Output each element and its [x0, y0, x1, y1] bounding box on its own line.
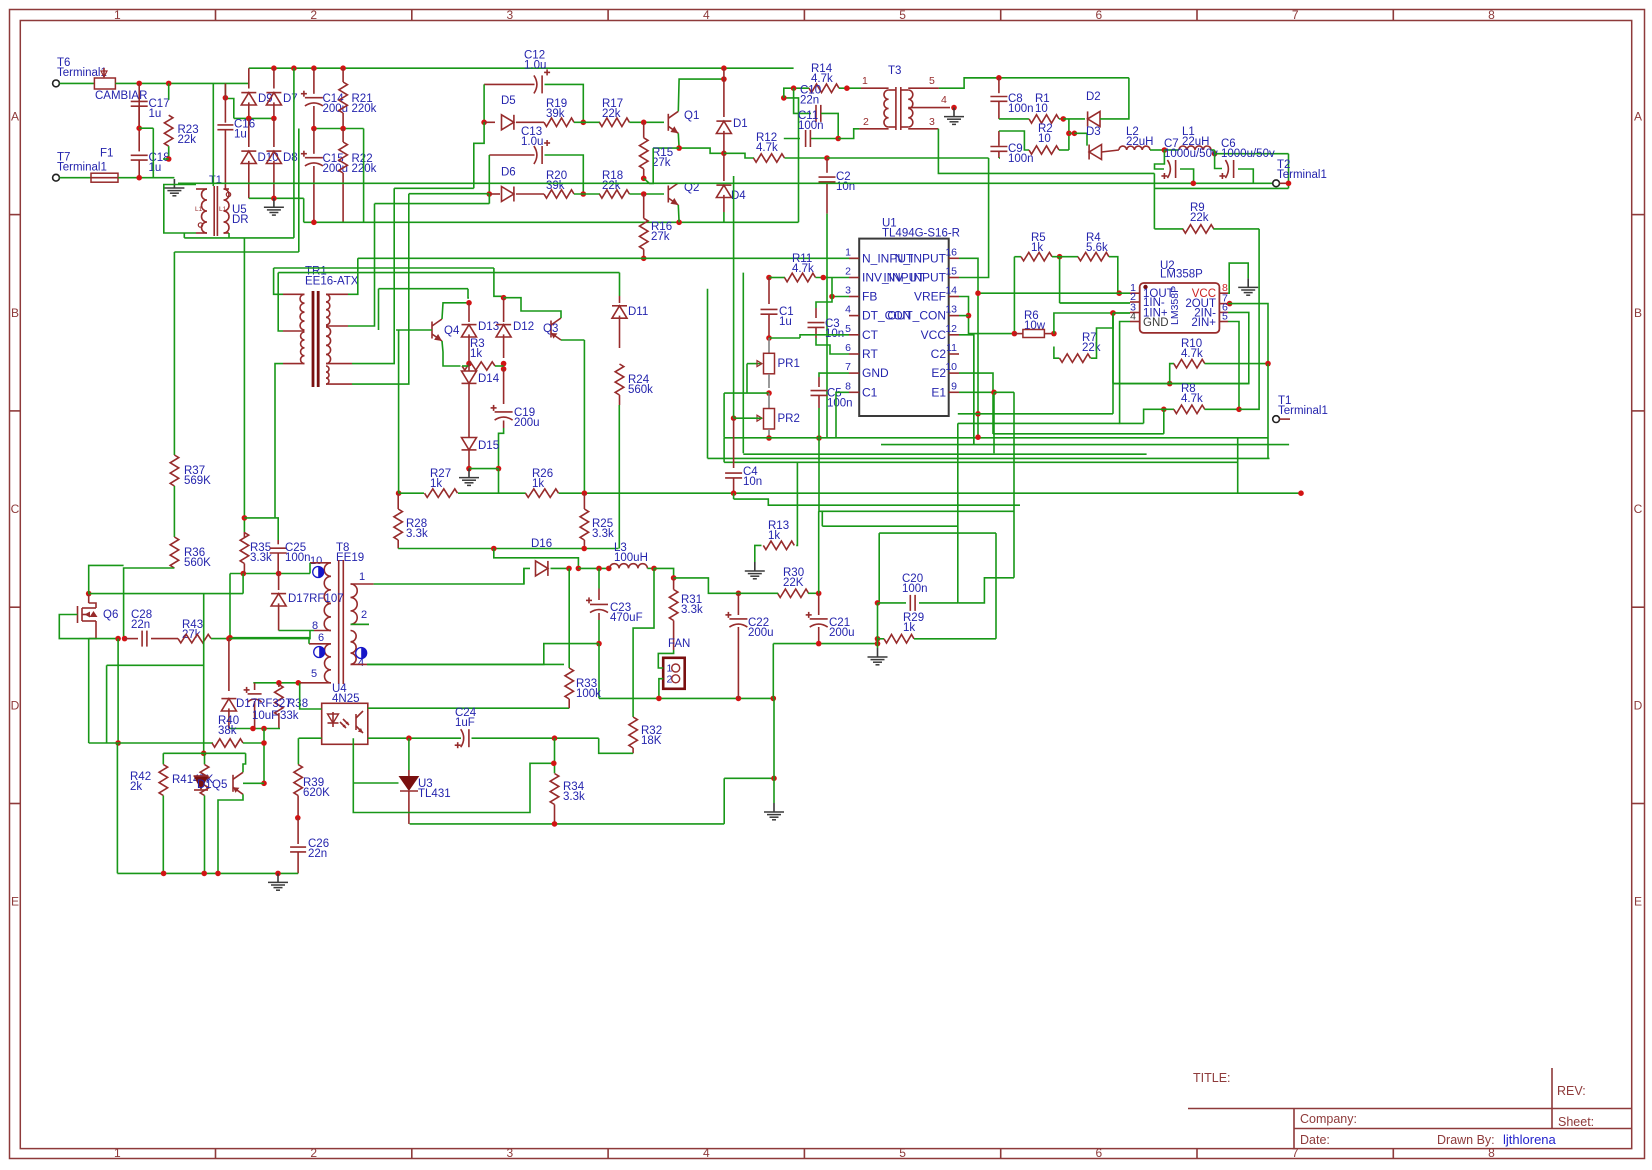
wire top rail [249, 67, 794, 69]
wire [839, 87, 861, 89]
ground [468, 469, 470, 478]
svg-text:T1: T1 [209, 174, 222, 186]
svg-text:10: 10 [945, 361, 957, 373]
svg-text:R41: R41 [172, 774, 193, 786]
svg-text:3: 3 [507, 1146, 514, 1160]
svg-text:PR1: PR1 [778, 358, 800, 370]
wire U1 pin13 [959, 315, 969, 317]
svg-text:2: 2 [310, 8, 317, 22]
resistor R22 [342, 129, 344, 143]
wire [818, 511, 820, 593]
svg-text:Q4: Q4 [444, 325, 460, 337]
wire U1 pin10 E2 [959, 373, 993, 434]
svg-text:200u: 200u [514, 417, 540, 429]
wire [674, 578, 733, 593]
svg-text:RT: RT [862, 347, 878, 361]
svg-text:470uF: 470uF [610, 612, 643, 624]
resistor R28 [394, 509, 403, 540]
wire Q1 emitter node [678, 133, 724, 153]
svg-text:Date:: Date: [1300, 1133, 1330, 1147]
wire [877, 603, 879, 648]
svg-text:560k: 560k [628, 384, 653, 396]
svg-text:C1: C1 [862, 385, 878, 399]
svg-text:5: 5 [899, 1146, 906, 1160]
wire Q4 collector [442, 303, 469, 319]
svg-text:22k: 22k [1190, 212, 1209, 224]
wire T3 pin3 [938, 129, 1154, 174]
wire [89, 565, 124, 593]
wire [295, 815, 301, 821]
wire U1 pin12 VCC [959, 335, 974, 445]
wire [60, 82, 95, 84]
svg-text:Drawn By:: Drawn By: [1437, 1133, 1495, 1147]
terminal T7 [53, 174, 60, 181]
wire [641, 255, 647, 261]
svg-text:Q3: Q3 [543, 323, 558, 335]
wire rail 698 [599, 697, 773, 699]
svg-text:INV_INPUT: INV_INPUT [883, 271, 946, 285]
diode D11 [619, 296, 621, 303]
transistor Q1 [667, 114, 669, 131]
wire [115, 82, 248, 84]
wire [211, 638, 229, 640]
svg-text:4: 4 [941, 94, 947, 106]
wire Q6 source [88, 639, 90, 743]
wire TR1 right tap4 [352, 194, 409, 384]
switch CAMBIAR [94, 78, 115, 89]
wire U1 pin8 [836, 392, 849, 438]
wire rail 573 [230, 573, 310, 575]
svg-text:8: 8 [1488, 1146, 1495, 1160]
svg-text:Sheet:: Sheet: [1558, 1115, 1594, 1129]
svg-text:620K: 620K [303, 787, 330, 799]
resistor R37 [173, 252, 175, 455]
wire [766, 390, 772, 396]
svg-text:1u: 1u [779, 316, 792, 328]
svg-text:D15: D15 [478, 440, 499, 452]
wire Q6 gate [59, 615, 118, 639]
svg-text:N_INPUT: N_INPUT [895, 251, 947, 265]
svg-text:10n: 10n [743, 476, 762, 488]
wire [243, 742, 264, 744]
wire rail 288.7 [379, 288, 469, 290]
wire T8 pin1 [374, 568, 524, 584]
wire [1267, 364, 1269, 459]
svg-text:E: E [1634, 895, 1642, 909]
resistor R19 [516, 121, 544, 123]
resistor R27 [399, 492, 424, 494]
svg-text:T3: T3 [888, 65, 901, 77]
wire Q3 vert [583, 340, 585, 493]
capacitor C16 [224, 83, 226, 122]
wire [363, 129, 365, 223]
wire rail 458 [708, 457, 1270, 459]
wire [466, 361, 472, 367]
potentiometer PR1 [768, 338, 770, 353]
wire [314, 128, 364, 130]
terminal T6 [53, 80, 60, 87]
diode D9 [248, 68, 250, 88]
wire [124, 568, 175, 639]
wire rail 413 [958, 413, 1113, 415]
svg-text:5: 5 [899, 8, 906, 22]
svg-text:D: D [1634, 698, 1643, 712]
wire [1069, 132, 1075, 134]
diode D2 [1088, 111, 1100, 126]
svg-text:Q1: Q1 [684, 110, 699, 122]
svg-text:1uF: 1uF [455, 717, 475, 729]
diode D1 [723, 68, 725, 79]
svg-text:DR: DR [232, 214, 249, 226]
svg-text:22k: 22k [602, 180, 621, 192]
svg-text:5: 5 [1222, 311, 1228, 323]
resistor R15 [643, 122, 645, 138]
wire Q6 drain rail [89, 593, 243, 595]
svg-text:22n: 22n [800, 95, 819, 107]
wire [784, 88, 809, 98]
svg-text:39k: 39k [546, 108, 565, 120]
ground [953, 108, 955, 117]
capacitor C17 [138, 83, 140, 125]
transistor Q3 [550, 321, 552, 338]
wire rail 533 [879, 532, 996, 534]
wire rail D5 feed [394, 187, 474, 189]
wire [1239, 229, 1259, 409]
wire [466, 466, 472, 472]
wire [958, 578, 1014, 603]
svg-text:D14: D14 [478, 373, 500, 385]
svg-text:100n: 100n [1008, 153, 1034, 165]
svg-text:560K: 560K [184, 557, 211, 569]
svg-text:Company:: Company: [1300, 1112, 1357, 1126]
svg-text:2k: 2k [130, 781, 142, 793]
svg-text:6: 6 [1096, 8, 1103, 22]
wire [484, 83, 534, 85]
wire [1150, 149, 1164, 151]
svg-text:D17RF107: D17RF107 [288, 593, 344, 605]
svg-text:15: 15 [945, 266, 957, 278]
svg-text:27k: 27k [651, 231, 670, 243]
svg-text:1k: 1k [532, 478, 544, 490]
transformer T1 U5 DR [202, 189, 208, 233]
svg-text:Terminal1: Terminal1 [57, 162, 107, 174]
svg-text:3.3k: 3.3k [250, 552, 272, 564]
wire T1 bottom [184, 237, 294, 239]
wire T8 pin4 [367, 663, 564, 665]
wire [229, 728, 280, 730]
svg-text:5.6k: 5.6k [1086, 242, 1108, 254]
svg-text:D1: D1 [197, 779, 212, 791]
wire [173, 486, 175, 537]
svg-text:11: 11 [946, 342, 957, 354]
wire top rail right [964, 77, 1129, 79]
svg-text:4.7k: 4.7k [811, 73, 833, 85]
svg-text:1: 1 [359, 571, 365, 583]
wire rail 824 [410, 823, 725, 825]
wire T8 pin5 [253, 682, 298, 684]
wire Q2 emitter [677, 205, 680, 222]
diode D3 [1089, 145, 1101, 160]
ground [773, 803, 775, 812]
wire bridge mid [234, 117, 274, 119]
svg-text:Q6: Q6 [103, 609, 118, 621]
wire Q4 base [396, 329, 432, 331]
capacitor C19 [503, 369, 505, 404]
svg-text:D6: D6 [501, 167, 516, 179]
wire [1057, 254, 1063, 260]
svg-text:F1: F1 [100, 148, 113, 160]
wire [724, 153, 754, 158]
svg-text:4.7k: 4.7k [756, 142, 778, 154]
svg-text:1u: 1u [234, 129, 247, 141]
wire [733, 176, 735, 418]
svg-text:D12: D12 [513, 321, 534, 333]
wire U2 pin6 [1113, 312, 1249, 383]
wire [838, 129, 859, 139]
svg-text:L1: L1 [219, 206, 227, 213]
wire rail 188 [1154, 187, 1288, 189]
svg-text:REV:: REV: [1557, 1084, 1586, 1098]
svg-text:5: 5 [845, 323, 851, 335]
svg-text:1.0u: 1.0u [524, 60, 546, 72]
wire [629, 121, 664, 123]
capacitor C14 [313, 68, 315, 94]
wire rail 203.6 [375, 203, 490, 205]
transistor Q2 [667, 186, 669, 203]
wire rail 434 [993, 433, 1164, 435]
wire [773, 698, 775, 803]
svg-text:3: 3 [929, 116, 935, 128]
resistor R12 [754, 154, 785, 162]
diode D7 [273, 68, 275, 88]
wire bottom rail [117, 872, 298, 874]
svg-text:100n: 100n [1008, 103, 1034, 115]
wire [489, 154, 534, 156]
svg-text:2: 2 [361, 609, 367, 621]
svg-text:14: 14 [945, 285, 957, 297]
transistor Q5 [232, 775, 234, 792]
wire [723, 778, 725, 824]
svg-text:D: D [11, 698, 20, 712]
svg-text:TL494G-S16-R: TL494G-S16-R [882, 228, 960, 240]
resistor R20 [516, 193, 544, 195]
ground [877, 648, 879, 657]
ground [273, 198, 275, 207]
wire [819, 438, 1014, 512]
ic U2 LM358P [1140, 283, 1220, 333]
wire rail 183 [178, 182, 1276, 184]
capacitor C1 [768, 278, 770, 305]
wire [462, 365, 469, 367]
resistor R18 [599, 190, 629, 198]
svg-text:10uF: 10uF [252, 710, 278, 722]
svg-text:200u: 200u [748, 627, 774, 639]
wire U2 pin1 [1116, 290, 1122, 296]
svg-text:3: 3 [845, 285, 851, 297]
svg-text:22k: 22k [602, 108, 621, 120]
wire rail 738 [368, 737, 461, 739]
svg-text:2: 2 [863, 116, 869, 128]
diode D13 [468, 303, 470, 322]
wire U2 pin3 [1110, 310, 1116, 316]
wire U1 pin16 [959, 258, 978, 437]
resistor R14 [809, 84, 839, 93]
svg-text:22n: 22n [131, 619, 150, 631]
wire [1061, 116, 1067, 122]
svg-text:22k: 22k [178, 134, 197, 146]
wire [658, 650, 673, 668]
svg-text:Terminal1: Terminal1 [1277, 169, 1327, 181]
svg-text:22K: 22K [783, 577, 804, 589]
wire T8 pin6 [230, 638, 309, 644]
svg-text:1: 1 [862, 75, 868, 87]
wire [973, 335, 975, 445]
wire [659, 679, 663, 699]
capacitor C25 [277, 540, 279, 544]
resistor R26 [526, 489, 559, 498]
diode D15 [468, 433, 470, 438]
svg-text:B: B [11, 306, 19, 320]
wire R12 right [785, 157, 828, 159]
svg-text:D11: D11 [628, 306, 648, 318]
wire [647, 567, 654, 569]
svg-text:1000u/50v: 1000u/50v [1164, 148, 1218, 160]
wire [742, 273, 744, 454]
wire [551, 567, 570, 569]
wire rail 444 [881, 444, 1289, 446]
wire U1 pin9 E1 [959, 391, 994, 393]
svg-text:EE19: EE19 [336, 552, 364, 564]
transistor Q4 [431, 322, 433, 339]
svg-text:D1: D1 [733, 118, 748, 130]
wire T8 pin2 stub [351, 623, 370, 625]
svg-text:5: 5 [929, 75, 935, 87]
ic U1 TL494G-S16-R [859, 239, 949, 416]
svg-text:1k: 1k [1031, 242, 1043, 254]
svg-text:22k: 22k [1082, 342, 1101, 354]
wire [641, 176, 647, 182]
wire [203, 594, 205, 754]
svg-text:2: 2 [310, 1146, 317, 1160]
wire rail 665 left [107, 664, 204, 666]
wire U1 pin15 [959, 158, 989, 278]
svg-text:100n: 100n [902, 583, 928, 595]
wire U1 pin14 VREF [959, 297, 1014, 334]
resistor R25 [580, 509, 589, 540]
svg-text:CT: CT [862, 328, 879, 342]
wire [1153, 173, 1155, 229]
svg-text:3.3k: 3.3k [563, 791, 585, 803]
svg-text:2IN+: 2IN+ [1191, 317, 1216, 329]
wire T1 primary loop [164, 185, 196, 234]
svg-text:10: 10 [1038, 133, 1051, 145]
wire T8 pin8 [279, 630, 314, 632]
svg-text:39k: 39k [546, 180, 565, 192]
wire [723, 212, 725, 222]
diode D4 [723, 153, 725, 181]
capacitor C3 [815, 308, 817, 318]
wire [136, 125, 142, 131]
svg-text:3: 3 [507, 8, 514, 22]
capacitor C15 [313, 129, 315, 154]
ground [277, 873, 279, 882]
resistor R17 [599, 118, 629, 127]
ground [754, 562, 756, 571]
wire [808, 592, 819, 594]
diode D14 [468, 364, 470, 371]
ground [1247, 278, 1249, 287]
wire long vert x244 [243, 238, 245, 532]
wire T3 pin5 [939, 78, 999, 88]
wire [596, 641, 602, 647]
wire [1059, 257, 1061, 303]
wire U2 pin7 [1227, 301, 1233, 307]
wire T3 pin4 [951, 105, 957, 111]
svg-text:VREF: VREF [914, 290, 946, 304]
wire [581, 120, 587, 126]
svg-text:GND: GND [1143, 317, 1169, 329]
wire [999, 131, 1029, 150]
svg-text:200u: 200u [323, 163, 349, 175]
wire [1163, 409, 1165, 434]
svg-text:33k: 33k [280, 710, 299, 722]
svg-text:569K: 569K [184, 475, 211, 487]
wire [1100, 78, 1129, 119]
wire [1112, 313, 1114, 384]
diode D17RF107 [278, 574, 280, 591]
svg-text:8: 8 [1488, 8, 1495, 22]
wire rail 462 [724, 461, 1238, 463]
capacitor C23 [598, 568, 600, 588]
wire Q5 base [243, 782, 264, 784]
svg-text:10: 10 [1035, 103, 1048, 115]
wire TR1 right tap1 [348, 258, 358, 294]
resistor R36 [170, 537, 179, 568]
wire [999, 157, 1000, 159]
wire [1215, 153, 1289, 155]
capacitor C4 [733, 418, 735, 468]
svg-text:1u: 1u [149, 162, 162, 174]
wire [581, 191, 587, 197]
wire [1211, 149, 1215, 151]
svg-text:1: 1 [114, 8, 121, 22]
svg-text:4.7k: 4.7k [1181, 393, 1203, 405]
svg-text:1000u/50v: 1000u/50v [1221, 148, 1275, 160]
svg-text:4: 4 [703, 8, 710, 22]
wire rail 493 right [620, 492, 1301, 494]
svg-text:1k: 1k [903, 622, 915, 634]
wire [229, 631, 310, 639]
wire TR1 right tap2 [348, 204, 375, 326]
wire [766, 435, 772, 441]
wire D16 bypass [494, 549, 579, 569]
diode D6 [487, 191, 493, 197]
resistor R21 [342, 68, 344, 82]
wire rail 453 [743, 453, 1146, 455]
wire [298, 129, 300, 253]
svg-text:D3: D3 [1086, 126, 1101, 138]
potentiometer PR2 [768, 393, 770, 408]
wire U4 pins [300, 683, 322, 709]
wire [166, 156, 172, 162]
terminal T1 right [1273, 416, 1280, 423]
capacitor C9 [998, 131, 1000, 146]
svg-text:D13: D13 [478, 321, 499, 333]
fuse F1 [60, 177, 92, 179]
wire TR1 left taps [274, 268, 283, 294]
svg-text:4: 4 [845, 304, 851, 316]
svg-text:D8: D8 [283, 152, 298, 164]
